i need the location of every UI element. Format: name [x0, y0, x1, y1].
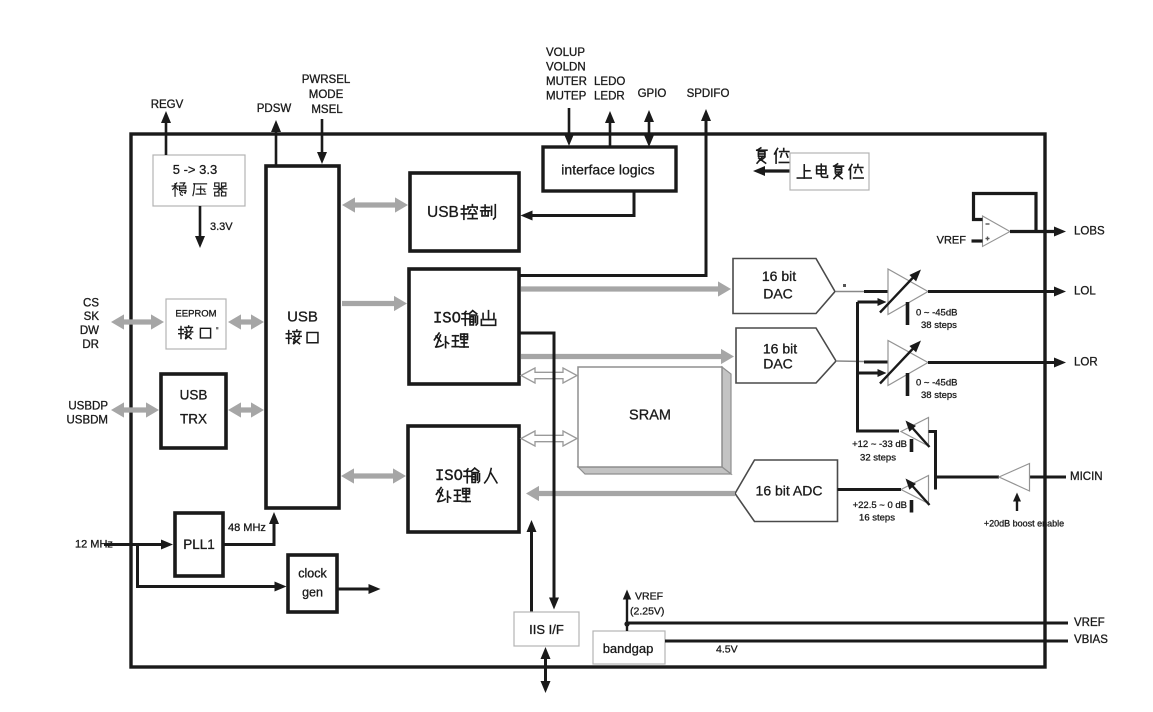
svg-text:GPIO: GPIO — [638, 88, 667, 100]
sidetone amp — [901, 418, 930, 453]
USB control block — [410, 173, 519, 251]
op-amp U1 — [983, 216, 1011, 247]
PDSW label — [257, 103, 292, 115]
LOBS output wire — [1010, 227, 1066, 237]
svg-text:16 steps: 16 steps — [859, 513, 895, 524]
bus ISOout-DAC2 — [521, 349, 734, 364]
svg-text:USB: USB — [427, 204, 459, 221]
12MHz label — [75, 539, 113, 551]
mic boost amp — [999, 464, 1030, 492]
IIS external bidir wire — [541, 647, 551, 693]
clock out wire — [337, 584, 381, 594]
LOL label — [1074, 286, 1096, 298]
12MHz wire — [104, 540, 173, 550]
ISO output processing block — [409, 269, 519, 384]
bus ADC-ISOin — [526, 486, 735, 501]
svg-text:USB: USB — [287, 309, 318, 326]
power-on-reset CJK label — [797, 164, 863, 179]
LOL gain label — [916, 308, 957, 332]
bus pins-USBTRX — [111, 402, 159, 417]
IIS-ISOin wire — [527, 520, 537, 612]
svg-text:MUTEP: MUTEP — [546, 91, 587, 103]
bus ISOout-SRAM — [521, 368, 577, 383]
bandgap box — [593, 631, 665, 664]
MSEL pin wire — [317, 119, 327, 164]
MUTER label — [546, 76, 587, 88]
svg-text:DAC: DAC — [763, 286, 793, 302]
power-on-reset box — [790, 153, 869, 190]
svg-text:gen: gen — [302, 586, 323, 600]
MUTEP input wire — [564, 108, 574, 146]
VBIAS output wire — [665, 640, 1068, 643]
svg-text:SK: SK — [84, 311, 100, 323]
svg-text:PDSW: PDSW — [257, 103, 292, 115]
VREF 2.25V label — [630, 591, 664, 618]
svg-text:MSEL: MSEL — [311, 104, 343, 116]
svg-text:+12 ~ -33 dB: +12 ~ -33 dB — [852, 439, 907, 450]
svg-text:PWRSEL: PWRSEL — [302, 74, 351, 86]
reset wire — [758, 169, 790, 172]
DR label — [82, 339, 99, 351]
VREF internal wire — [623, 590, 631, 632]
svg-text:PLL1: PLL1 — [183, 537, 215, 552]
sidetone-LORamp wire — [858, 369, 887, 377]
bus USBif-ISOout — [342, 296, 407, 311]
svg-text:4.5V: 4.5V — [716, 644, 738, 656]
LOL output wire — [928, 287, 1066, 297]
volume amp LOR — [880, 341, 928, 397]
svg-text:interface logics: interface logics — [561, 162, 654, 178]
MUTEP label — [546, 91, 587, 103]
VBIAS pin label — [1074, 634, 1108, 646]
svg-text:USB: USB — [180, 388, 208, 403]
bus ISOin-SRAM — [521, 431, 577, 446]
svg-text:+22.5 ~ 0 dB: +22.5 ~ 0 dB — [853, 500, 907, 511]
svg-text:16 bit ADC: 16 bit ADC — [756, 483, 823, 499]
USB TRX block — [161, 374, 226, 448]
16bit ADC block — [735, 460, 838, 522]
svg-text:MODE: MODE — [309, 89, 344, 101]
ISO input processing block — [408, 426, 519, 532]
16bit DAC left block — [733, 259, 835, 314]
3.3V wire — [195, 206, 205, 248]
svg-text:0 ~ -45dB: 0 ~ -45dB — [916, 378, 957, 389]
GPIO bidir wire — [644, 110, 654, 147]
svg-text:DW: DW — [80, 325, 99, 337]
DAC2-amp wire — [836, 361, 888, 362]
LOR output wire — [928, 358, 1066, 368]
SPDIFO label — [687, 88, 730, 100]
svg-text:32 steps: 32 steps — [860, 453, 896, 464]
svg-text:USBDM: USBDM — [66, 415, 108, 427]
MICIN label — [1070, 471, 1103, 483]
LEDO label — [594, 76, 625, 88]
svg-text:16 bit: 16 bit — [762, 268, 796, 284]
reset wire arrowhead — [753, 166, 765, 176]
VREF pin label — [1074, 617, 1105, 629]
PWRSEL label — [302, 74, 351, 86]
svg-text:SRAM: SRAM — [629, 408, 671, 424]
GPIO label — [638, 88, 667, 100]
bus USBif-USBctrl — [342, 197, 408, 212]
sidetone bus wire — [858, 302, 900, 431]
ISO input CJK label — [436, 468, 497, 502]
svg-text:VBIAS: VBIAS — [1074, 634, 1108, 646]
svg-text:bandgap: bandgap — [603, 641, 654, 656]
SRAM block — [578, 367, 731, 474]
SK label — [84, 311, 100, 323]
svg-text:VREF: VREF — [937, 235, 967, 247]
boost enable label — [984, 519, 1064, 529]
MICIN wire — [936, 476, 1067, 479]
bus USBTRX-USBif — [228, 402, 264, 417]
PDSW pin wire — [271, 120, 281, 166]
mic gain label — [853, 500, 907, 524]
VREF output wire — [627, 622, 1068, 625]
svg-text:0 ~ -45dB: 0 ~ -45dB — [916, 308, 957, 319]
IIS I/F box — [514, 612, 579, 646]
LOR gain label — [916, 378, 957, 402]
PLL1 block — [175, 513, 223, 576]
EEPROM interface box — [166, 299, 226, 349]
svg-text:MICIN: MICIN — [1070, 471, 1103, 483]
svg-text:VOLDN: VOLDN — [546, 62, 586, 74]
svg-text:MUTER: MUTER — [546, 76, 587, 88]
svg-text:VREF: VREF — [1074, 617, 1105, 629]
sidetone amp input wire — [929, 432, 936, 490]
DW label — [80, 325, 99, 337]
sidetone-LOLamp wire — [858, 298, 887, 306]
USB interface CJK label — [286, 330, 318, 344]
svg-text:+20dB boost enable: +20dB boost enable — [984, 519, 1064, 529]
VOLDN label — [546, 62, 586, 74]
bus USBif-ISOin — [341, 468, 406, 483]
VOLUP label — [546, 47, 585, 59]
svg-text:CS: CS — [83, 298, 99, 310]
LOR label — [1074, 357, 1098, 369]
reset label — [757, 148, 789, 163]
3.3V label — [210, 221, 233, 233]
boost enable wire — [1013, 493, 1021, 512]
svg-text:3.3V: 3.3V — [210, 221, 233, 233]
svg-text:ISO: ISO — [433, 310, 461, 328]
svg-text:ISO: ISO — [435, 467, 463, 485]
op-amp feedback wire — [974, 194, 1037, 232]
USB control CJK label — [461, 205, 495, 220]
clock branch wire — [138, 545, 287, 592]
svg-text:48 MHz: 48 MHz — [228, 522, 266, 534]
svg-text:USBDP: USBDP — [68, 401, 108, 413]
VREF opamp label — [937, 235, 967, 247]
EEPROM CJK label — [179, 326, 211, 339]
bus ISOout-DAC1 — [521, 281, 731, 296]
VREF input dash — [972, 239, 983, 242]
DAC1-amp wire — [836, 284, 888, 292]
MODE label — [309, 89, 344, 101]
bus pins-EEPROM — [111, 314, 164, 329]
regulator box 5-to-3.3 — [153, 155, 245, 206]
bus EEPROM-USBif — [228, 314, 264, 329]
svg-text:DR: DR — [82, 339, 99, 351]
sidetone gain label — [852, 439, 907, 464]
svg-text:VOLUP: VOLUP — [546, 47, 585, 59]
svg-text:(2.25V): (2.25V) — [630, 606, 664, 618]
USBDM label — [66, 415, 108, 427]
svg-text:VREF: VREF — [635, 591, 663, 603]
clock gen block — [288, 555, 337, 612]
48MHz label — [228, 522, 266, 534]
svg-text:16 bit: 16 bit — [763, 341, 797, 357]
mic gain amp — [901, 476, 930, 513]
REGV pin wire — [161, 111, 171, 155]
volume amp LOL — [880, 269, 928, 325]
interface logics block — [543, 147, 676, 191]
LEDR label — [594, 91, 625, 103]
micamp-ADC wire — [838, 488, 902, 491]
USB interface block — [266, 166, 339, 508]
svg-text:5 -> 3.3: 5 -> 3.3 — [173, 162, 217, 177]
svg-text:TRX: TRX — [180, 412, 207, 427]
ISO output CJK label — [434, 311, 495, 348]
svg-text:SPDIFO: SPDIFO — [687, 88, 730, 100]
svg-text:LOL: LOL — [1074, 286, 1096, 298]
svg-text:REGV: REGV — [151, 99, 184, 111]
LOBS label — [1074, 226, 1105, 238]
4.5V label — [716, 644, 738, 656]
svg-text:IIS I/F: IIS I/F — [529, 622, 564, 637]
PLL-USBif wire — [223, 512, 279, 545]
svg-text:clock: clock — [298, 567, 327, 581]
svg-text:LOR: LOR — [1074, 357, 1098, 369]
svg-text:38 steps: 38 steps — [921, 390, 957, 401]
16bit DAC right block — [736, 328, 836, 383]
chip boundary — [131, 134, 1045, 667]
svg-text:38 steps: 38 steps — [921, 320, 957, 331]
CS label — [83, 298, 99, 310]
svg-text:EEPROM: EEPROM — [175, 309, 216, 320]
SPDIFO wire — [519, 109, 711, 276]
LEDO-LEDR output wire — [605, 111, 615, 147]
REGV label — [151, 99, 184, 111]
USBDP label — [68, 401, 108, 413]
ISOout-IIS wire — [519, 333, 559, 610]
svg-text:LEDR: LEDR — [594, 91, 625, 103]
regulator label text — [172, 183, 227, 196]
intlogics-to-USBctrl wire — [521, 191, 635, 221]
svg-text:DAC: DAC — [763, 356, 793, 372]
svg-text:LOBS: LOBS — [1074, 226, 1105, 238]
svg-text:LEDO: LEDO — [594, 76, 625, 88]
MSEL label — [311, 104, 343, 116]
